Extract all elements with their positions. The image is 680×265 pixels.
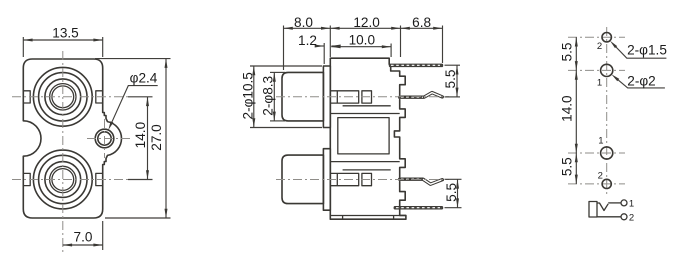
dimension 2-phi10.5 line: [253, 66, 255, 128]
leader 2-phi1.5: [616, 47, 666, 58]
dimension 10.0 line: [331, 46, 391, 48]
schematic pin 1 circle: [621, 200, 627, 206]
left mounting tab upper: [23, 91, 30, 103]
dimension 7.0 extension line: [102, 221, 104, 250]
centerline side J2: [276, 179, 449, 181]
svg-text:27.0: 27.0: [149, 124, 164, 151]
dimension 5.5 bottom (pins 3-4): [445, 178, 462, 180]
jack J1 outer ring: [33, 67, 92, 126]
internal middle cavity rect: [338, 118, 389, 154]
svg-text:2: 2: [598, 171, 603, 182]
dimension 8.0 line: [284, 27, 331, 29]
svg-text:5.5: 5.5: [443, 70, 458, 89]
internal shelf lines between jacks: [330, 106, 399, 170]
right mounting tab upper: [96, 91, 103, 103]
svg-text:5.5: 5.5: [444, 183, 459, 202]
barrel J2 (phi8.3): [282, 155, 323, 204]
centerline hole D: [568, 183, 625, 185]
hole B (phi2): [601, 64, 613, 76]
jack J2 bore inner: [52, 169, 74, 191]
dimension 6.8 line: [401, 27, 443, 29]
jack J1 ring 3: [45, 79, 81, 115]
svg-text:5.5: 5.5: [559, 157, 574, 176]
pin 1 (top straight): [389, 64, 443, 67]
jack J1 ring 2: [39, 73, 87, 121]
dimension 27.0 line: [165, 59, 167, 218]
leader phi2.4: [112, 86, 158, 122]
dimension 27.0 extension lines: [95, 58, 171, 60]
small hole boss ring: [95, 129, 114, 148]
svg-text:1.2: 1.2: [298, 33, 317, 48]
svg-text:14.0: 14.0: [559, 95, 574, 122]
right mounting tab lower: [96, 173, 103, 185]
dimension 2-phi8.3 line: [273, 72, 275, 121]
schematic pin 2 circle: [621, 214, 627, 220]
small hole phi2.4: [98, 132, 111, 145]
dimension 12.0 line: [330, 27, 400, 29]
centerline small hole horizontal: [87, 138, 131, 140]
svg-text:2-φ10.5: 2-φ10.5: [240, 72, 255, 119]
svg-text:5.5: 5.5: [559, 43, 574, 62]
body bottom feet line: [330, 216, 406, 220]
svg-text:1: 1: [598, 135, 603, 146]
svg-text:10.0: 10.0: [349, 33, 376, 48]
centerline hole A: [568, 36, 625, 38]
jack J2 ring 3: [45, 162, 81, 198]
svg-text:14.0: 14.0: [133, 121, 148, 148]
leader 2-phi2: [618, 80, 665, 88]
inner contact block J2: [362, 173, 372, 185]
pin 3 (lower signal, bent down): [400, 179, 443, 184]
inner contact block J1: [362, 91, 372, 103]
front view body outline: [23, 59, 121, 218]
centerline small hole vertical: [104, 119, 106, 158]
centerline hole C: [568, 152, 625, 154]
svg-text:7.0: 7.0: [74, 230, 93, 245]
pin 2 (upper signal, bent up): [400, 93, 443, 98]
flange J1 (phi10.5): [323, 66, 330, 128]
schematic wire to pin 1: [608, 202, 621, 204]
jack J2 ring 2: [39, 155, 87, 203]
jack J2 bore outer: [50, 166, 76, 192]
svg-text:2-φ8.3: 2-φ8.3: [261, 76, 276, 116]
centerline J2 horizontal: [12, 179, 128, 181]
barrel J1 (phi8.3): [282, 72, 323, 121]
svg-text:2: 2: [629, 213, 634, 224]
inner slot band J2: [330, 173, 358, 185]
footprint dimension line 5.5/14.0/5.5: [575, 37, 577, 70]
svg-text:8.0: 8.0: [294, 15, 313, 30]
svg-text:12.0: 12.0: [353, 15, 380, 30]
jack J1 bore outer: [50, 84, 76, 110]
left mounting tab lower: [23, 173, 30, 185]
pin 4 (bottom straight): [394, 206, 443, 209]
centerline footprint vertical: [606, 27, 608, 197]
hole C (phi2): [601, 147, 613, 159]
schematic switch contact: [598, 203, 609, 211]
dimension 5.5 top (pins 1-2): [445, 64, 461, 66]
hole A (phi1.5): [602, 33, 611, 42]
dimension 1.2 leader and arrows: [317, 45, 325, 47]
flange J2 (phi10.5): [323, 149, 330, 211]
svg-text:6.8: 6.8: [412, 15, 431, 30]
inner slot band J1: [330, 91, 358, 103]
dimension 8.0/12.0/6.8 extension lines: [283, 26, 285, 71]
dimension 13.5 line: [23, 39, 102, 41]
dimension 14.0 extension lines: [128, 96, 153, 98]
centerline vertical body: [62, 51, 64, 252]
jack J1 bore inner: [52, 86, 74, 108]
jack J2 outer ring: [33, 150, 92, 209]
dimension 14.0 line: [147, 97, 149, 180]
centerline side J1: [276, 96, 449, 98]
svg-text:φ2.4: φ2.4: [130, 71, 158, 86]
dimension 7.0 line: [63, 244, 103, 246]
svg-text:2-φ2: 2-φ2: [627, 74, 655, 89]
svg-text:2: 2: [597, 41, 602, 52]
hole D (phi1.5): [602, 179, 611, 188]
centerline J1 horizontal: [12, 96, 128, 98]
schematic wire to pin 2: [597, 216, 621, 218]
schematic jack body: [589, 202, 597, 218]
svg-text:1: 1: [629, 199, 634, 210]
dimension 13.5 extension lines: [22, 37, 24, 57]
svg-text:2-φ1.5: 2-φ1.5: [627, 43, 667, 58]
side view body outline: [330, 58, 406, 219]
centerline hole B: [568, 69, 625, 71]
svg-text:13.5: 13.5: [52, 26, 78, 41]
svg-text:1: 1: [597, 78, 602, 89]
